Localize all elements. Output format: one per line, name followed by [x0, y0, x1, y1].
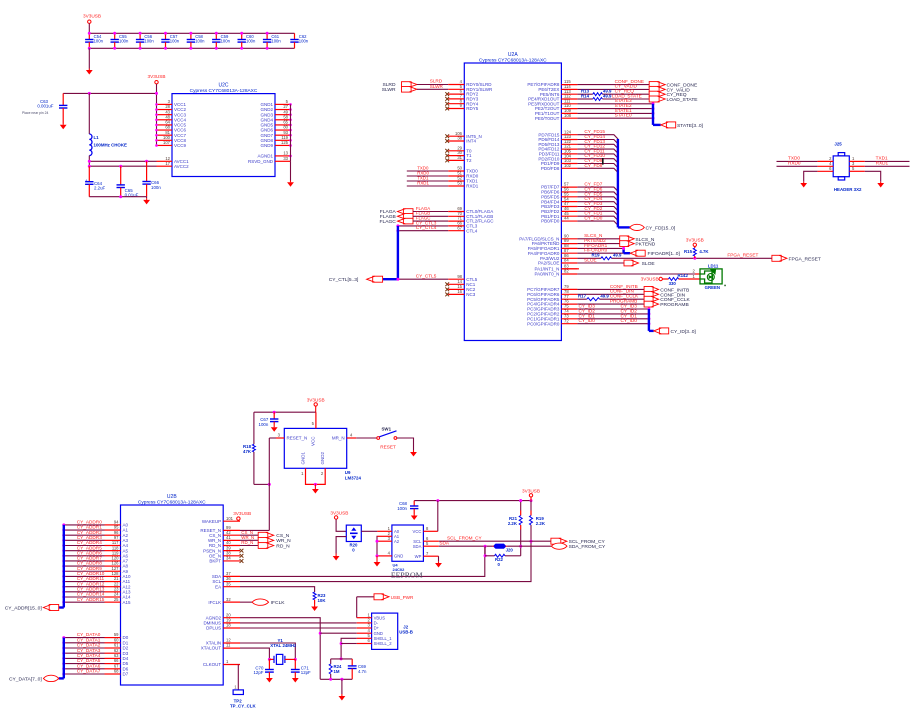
wire CY_ADDR12 [64, 586, 105, 588]
svg-text:2.2K: 2.2K [508, 521, 518, 526]
wire CY_FD15 [577, 135, 618, 139]
U2A pin RDY0/SLRD [448, 84, 464, 86]
wire FPGA_RESET [612, 257, 772, 259]
wire AVCC1 rail [89, 160, 156, 162]
wire RXD0 [777, 165, 818, 167]
wire 3V3USB to R20 [336, 519, 346, 531]
svg-text:31: 31 [457, 155, 462, 160]
wire J25 pin5 to ground [865, 171, 881, 182]
U2A pin RDY4 (no connect) [448, 103, 464, 105]
svg-text:NC3: NC3 [466, 292, 475, 297]
capacitor C68 [410, 501, 418, 514]
J2 pin D- [357, 622, 372, 624]
U2C pin AVCC2 [157, 165, 173, 167]
ground (U4 A1/A2/GND) [374, 556, 381, 567]
svg-text:U9: U9 [345, 470, 351, 475]
J2 pin D+ [357, 627, 372, 629]
wire CY_FD8 [577, 168, 618, 172]
U2A pin PC6/GPIFADR6 [561, 293, 577, 295]
junction [622, 247, 625, 250]
resistor R18 47K [253, 412, 255, 444]
wire CY_FD12 [577, 149, 618, 153]
wire SCL_FROM_CY [439, 540, 551, 542]
svg-text:VCC9: VCC9 [174, 143, 187, 148]
junction [88, 92, 91, 95]
wire INT0_N to LED [577, 273, 695, 275]
svg-text:PROGRAMB: PROGRAMB [660, 302, 689, 308]
svg-text:PA0/INT0_N: PA0/INT0_N [534, 272, 559, 277]
svg-text:SDA: SDA [413, 544, 422, 549]
svg-text:Cypress CY7C68013A-128AXC: Cypress CY7C68013A-128AXC [138, 499, 206, 505]
svg-text:100MHz CHOKE: 100MHz CHOKE [94, 142, 127, 147]
resistor R23 10K [313, 592, 316, 600]
J25 pin 5 [849, 170, 865, 172]
wire CONF_INITB [577, 288, 644, 290]
wire RXD1 [407, 185, 448, 187]
junction [139, 32, 142, 35]
U2B pin A8 [105, 565, 121, 567]
port IFCLK [252, 599, 269, 605]
ground (C68) [411, 514, 418, 520]
IC U2B box [121, 505, 224, 685]
U2C pin AVCC1 [157, 160, 173, 162]
svg-text:12pF: 12pF [253, 670, 263, 675]
U2A pin T2 (no connect) [448, 159, 464, 161]
junction [647, 308, 650, 311]
U2A pin PA5/FIFOADR1 [561, 247, 577, 249]
wire TXD1 [407, 180, 448, 182]
U2C pin VCC2 [157, 109, 173, 111]
capacitor C63 [59, 93, 67, 110]
svg-text:FPGA_RESET: FPGA_RESET [727, 253, 758, 258]
wire CY_DATA6 [64, 668, 105, 670]
svg-text:WR_N: WR_N [276, 538, 291, 544]
junction [329, 678, 332, 681]
junction [268, 658, 271, 661]
wire CONF_DONE [577, 84, 649, 86]
junction [62, 534, 65, 537]
svg-text:38: 38 [457, 136, 462, 141]
wire CY_ADDR4 [64, 545, 105, 547]
svg-text:PKTEND: PKTEND [635, 242, 655, 248]
ground (AVCC filter) [146, 197, 148, 199]
wire CY_ADDR6 [64, 555, 105, 557]
port SLCS_N [620, 236, 635, 242]
junction [62, 570, 65, 573]
wire CY_FD3 [577, 207, 618, 211]
U2B pin D0 [105, 637, 121, 639]
U2A pin PA6/PKTEND [561, 243, 577, 245]
bus FIFOADR [622, 248, 624, 253]
junction [652, 102, 655, 105]
wire CY_DATA5 [64, 663, 105, 665]
wire WR_N [240, 539, 258, 541]
svg-text:R142: R142 [678, 273, 689, 278]
U2C pin AGND1 [275, 155, 291, 157]
U2A pin PB6/FD6 [561, 191, 577, 193]
svg-text:PC0/GPIFADR0: PC0/GPIFADR0 [527, 321, 560, 326]
svg-text:CY_ADDR15: CY_ADDR15 [77, 597, 105, 602]
svg-text:100n: 100n [94, 38, 104, 43]
U2B pin A4 [105, 545, 121, 547]
U2A pin PA1 stub [561, 268, 579, 270]
svg-text:SLWR: SLWR [382, 87, 396, 93]
U2A pin RDY1/SLWR [448, 88, 464, 90]
J2 pin GND [357, 632, 372, 634]
wire CY_FD11 [577, 154, 618, 158]
U2C pin GND4 [275, 119, 291, 121]
svg-text:3V3USB: 3V3USB [522, 489, 540, 494]
svg-text:HEADER 3X2: HEADER 3X2 [834, 187, 862, 192]
wire CY_VALID [577, 88, 649, 90]
capacitor C60 [238, 33, 246, 48]
U2B pin A3 [105, 539, 121, 541]
IC U9 LM3724 box [284, 428, 346, 468]
wire PE5 to R13 [577, 93, 592, 95]
svg-text:L1: L1 [94, 135, 100, 140]
U2C pin VCC5 [157, 124, 173, 126]
junction [88, 32, 91, 35]
svg-text:XTAL 24MHz: XTAL 24MHz [270, 643, 297, 648]
svg-text:100n: 100n [195, 38, 205, 43]
svg-text:RESET_N: RESET_N [287, 436, 308, 441]
U2A pin RXD0 [448, 175, 464, 177]
wire 3V3USB feed [63, 92, 156, 94]
svg-text:A15: A15 [123, 600, 132, 605]
junction [266, 32, 269, 35]
capacitor C61 [263, 33, 271, 48]
junction [319, 632, 322, 635]
ground (cap bank) [88, 48, 90, 68]
svg-text:CY_CTL[5..3]: CY_CTL[5..3] [329, 277, 359, 283]
wire R18 to RESET_N [254, 483, 269, 485]
junction [519, 545, 522, 548]
wire CY_ADDR11 [64, 581, 105, 583]
svg-text:13: 13 [283, 151, 288, 156]
ground (C71) [292, 677, 299, 683]
junction [88, 160, 91, 163]
junction [62, 601, 65, 604]
power 3V3USB (R15) [693, 243, 696, 246]
wire PE4 to R14 [577, 98, 592, 100]
svg-text:CY_DATA[7..0]: CY_DATA[7..0] [9, 676, 42, 682]
U2A pin PE1/T1OUT [561, 112, 577, 114]
junction [652, 117, 655, 120]
svg-text:3V3USB: 3V3USB [686, 238, 704, 243]
svg-text:VCC: VCC [311, 436, 316, 446]
capacitor C54 [85, 33, 93, 48]
port CONF_CCLK [644, 296, 659, 302]
wire CONF_CCLK [600, 298, 645, 300]
U2B pin D7 [105, 673, 121, 675]
U2A pin PC7/GPIFADR7 [561, 288, 577, 290]
ground (J25 right) [877, 182, 884, 188]
svg-text:CY_ID0: CY_ID0 [621, 318, 638, 323]
U2A pin PE6/T2EX [561, 88, 577, 90]
svg-text:108: 108 [564, 113, 572, 118]
svg-text:GND2: GND2 [320, 452, 325, 465]
wire GND bus (U2C) [290, 104, 292, 161]
wire VCC bus [156, 93, 158, 145]
svg-text:CY_ADDR[15..0]: CY_ADDR[15..0] [5, 606, 43, 612]
svg-text:49.9: 49.9 [613, 253, 622, 258]
U2A pin T0 (no connect) [448, 150, 464, 152]
svg-text:R15: R15 [684, 249, 693, 254]
wire SLWR [417, 88, 448, 90]
svg-text:PA2/SLOE: PA2/SLOE [538, 261, 559, 266]
svg-text:TP_CY_CLK: TP_CY_CLK [230, 704, 256, 709]
wire AGND2 [240, 618, 320, 680]
U2B pin D4 [105, 657, 121, 659]
switch SW1 RESET [377, 437, 380, 440]
wire FLAGC [413, 220, 448, 222]
port CS_N [258, 532, 274, 538]
svg-text:101: 101 [226, 516, 234, 521]
svg-text:16: 16 [457, 289, 462, 294]
svg-text:GND: GND [394, 554, 403, 559]
power 3V3USB (U2C) [155, 81, 158, 84]
svg-text:A2: A2 [394, 539, 400, 544]
wire SCL long [240, 525, 531, 582]
wire TXD0 [407, 170, 448, 172]
U2A pin PC4/GPIFADR4 [561, 303, 577, 305]
U2B pin D3 [105, 652, 121, 654]
U2A pin NC1 (no connect) [448, 283, 464, 285]
svg-text:3V3USB: 3V3USB [233, 511, 251, 516]
IC U2C box [172, 94, 275, 177]
junction [155, 92, 158, 95]
junction [340, 642, 343, 645]
svg-text:68: 68 [114, 669, 119, 674]
svg-text:100n: 100n [170, 38, 180, 43]
wire MR_N to SW1 [356, 437, 377, 439]
port SCL_FROM_CY [551, 538, 567, 544]
U2C pin VCC8 [157, 139, 173, 141]
svg-text:3V3USB: 3V3USB [148, 74, 166, 79]
svg-text:USB-B: USB-B [399, 629, 413, 634]
wire RXD1 [865, 165, 910, 167]
wire A1/A2 tie [376, 536, 378, 556]
svg-text:J25: J25 [834, 141, 842, 146]
wire CY_DATA4 [64, 657, 105, 659]
U2B pin SCL [223, 581, 240, 583]
svg-text:U2C: U2C [218, 83, 228, 89]
U2B pin A15 [105, 601, 121, 603]
U2A pin PB1/FD1 [561, 215, 577, 217]
U4 pin VCC [423, 530, 437, 532]
wire CY_ID0 [577, 323, 649, 325]
U2A pin INT4 (no connect) [448, 140, 464, 142]
U2B pin A0 [105, 524, 121, 526]
wire XTALOUT [240, 648, 269, 659]
svg-text:GREEN: GREEN [705, 285, 720, 290]
wire D+ [240, 627, 357, 629]
junction [119, 195, 122, 198]
wire PC5 to R17 [577, 298, 586, 300]
junction [62, 539, 65, 542]
port RD_N [258, 543, 274, 549]
junction [693, 257, 696, 260]
U2A pin PD2/FD10 [561, 158, 577, 160]
wire CY_FD1 [577, 216, 618, 220]
U9 pin MR_N [347, 437, 357, 439]
jumper R20 [346, 525, 361, 541]
svg-text:107: 107 [163, 140, 171, 145]
wire FLAGA [413, 211, 448, 213]
svg-text:CY_FD0: CY_FD0 [584, 216, 602, 221]
svg-text:SHELL_2: SHELL_2 [374, 641, 393, 646]
U4 pin SCL [423, 540, 438, 542]
svg-text:T2: T2 [466, 158, 472, 163]
wire STATE1 [577, 112, 653, 114]
svg-text:12pF: 12pF [301, 670, 311, 675]
junction [62, 662, 65, 665]
jumper J20 [494, 544, 506, 548]
resistor R15 4.7K [694, 247, 696, 249]
ground (R20) [333, 554, 340, 561]
U2B pin DMINUS [223, 622, 240, 624]
U2A pin PA2/SLOE [561, 262, 577, 264]
wire CY_DATA3 [64, 652, 105, 654]
svg-text:3V3USB: 3V3USB [307, 398, 325, 403]
wire D- [240, 622, 357, 624]
capacitor C57 [161, 33, 169, 48]
ground (U2C) [290, 161, 292, 180]
U2A pin PE7/GPIFADR8 [561, 84, 577, 86]
power 3V3USB (U9) [314, 403, 317, 406]
wire WP to ground [438, 556, 440, 562]
U2C pin GND2 [275, 109, 291, 111]
U2A pin INT5_N (no connect) [448, 135, 464, 137]
U2A pin CTL5 [448, 278, 464, 280]
junction [62, 554, 65, 557]
J2 pin SHELL_1 [357, 637, 372, 639]
capacitor C62 [290, 33, 298, 48]
wire CY_ADDR0 [64, 524, 105, 526]
svg-text:RD_N: RD_N [241, 540, 253, 545]
U4 pin A0 [377, 530, 392, 532]
bus CY_ADDR vertical [63, 525, 65, 608]
svg-text:33: 33 [283, 156, 288, 161]
power 3V3USB (cap bank) [88, 20, 91, 23]
junction [436, 499, 439, 502]
svg-text:XTALOUT: XTALOUT [201, 646, 222, 651]
U2A pin PB3/FD3 [561, 206, 577, 208]
port CY_FD[15..0] [630, 224, 645, 230]
U2B pin CS_N [223, 534, 240, 536]
svg-text:100n: 100n [246, 38, 256, 43]
wire CY_DATA0 [64, 637, 105, 639]
U2C pin RSVD_GND [275, 160, 291, 162]
svg-text:49.9: 49.9 [603, 93, 612, 98]
svg-text:AVCC2: AVCC2 [174, 164, 189, 169]
svg-text:EA: EA [215, 584, 221, 589]
junction [113, 32, 116, 35]
wire CY_ADDR8 [64, 565, 105, 567]
junction [652, 107, 655, 110]
svg-text:10K: 10K [318, 598, 327, 603]
wire SHELL_2 [341, 643, 357, 645]
svg-text:USB_PWR: USB_PWR [391, 595, 414, 600]
svg-text:GND1: GND1 [300, 452, 305, 465]
svg-text:RXD1: RXD1 [876, 161, 889, 166]
J25 pin 3 [849, 165, 865, 167]
svg-text:PD0/FD8: PD0/FD8 [541, 166, 560, 171]
U9 pin RESET_N [276, 437, 284, 439]
wire R24/C69 top rail [331, 658, 353, 660]
capacitor C59 [212, 33, 220, 48]
svg-text:CY_FD[15..0]: CY_FD[15..0] [646, 225, 676, 231]
J25 pin 6 [817, 170, 833, 172]
svg-text:CY_DATA7: CY_DATA7 [77, 669, 101, 674]
svg-text:VCC: VCC [413, 529, 422, 534]
svg-text:CLKOUT: CLKOUT [203, 662, 222, 667]
wire CY_FD9 [577, 164, 618, 168]
svg-text:100n: 100n [221, 38, 231, 43]
svg-text:Cypress CY7C68013A-128AXC: Cypress CY7C68013A-128AXC [479, 58, 547, 64]
wire CLKOUT to TP2 [237, 665, 239, 690]
svg-text:102: 102 [564, 163, 572, 168]
junction [240, 32, 243, 35]
U2B pin A5 [105, 550, 121, 552]
svg-text:CY_CTL4: CY_CTL4 [416, 225, 437, 230]
wire CY_ADDR2 [64, 534, 105, 536]
U2B pin AGND2 [223, 617, 240, 619]
svg-text:RD_N: RD_N [276, 543, 290, 549]
svg-text:LOAD_STATE: LOAD_STATE [667, 97, 699, 103]
svg-text:18: 18 [226, 623, 231, 628]
U2A pin RDY3 (no connect) [448, 98, 464, 100]
wire 3V3 rail (U9) [254, 411, 316, 413]
U2A pin PD5/FD13 [561, 143, 577, 145]
svg-text:D7: D7 [123, 672, 129, 677]
junction [62, 529, 65, 532]
wire LOAD_STATE [602, 98, 649, 100]
U4 pin SDA [423, 545, 438, 547]
svg-text:PB0/FD0: PB0/FD0 [541, 219, 560, 224]
wire CY_ADDR3 [64, 539, 105, 541]
wire SLCS_N [577, 238, 619, 240]
svg-text:BKPT: BKPT [209, 559, 221, 564]
wire SLRD [417, 84, 448, 86]
junction [164, 32, 167, 35]
port SLOE [624, 260, 639, 266]
U2B pin D5 [105, 663, 121, 665]
junction [273, 411, 276, 414]
bus CY_FD vertical [617, 139, 619, 228]
U2C pin GND6 [275, 129, 291, 131]
junction [62, 575, 65, 578]
U2B pin EA [223, 586, 240, 588]
wire RXD0 [407, 175, 448, 177]
wire CY_REQ [602, 93, 649, 95]
svg-text:INT4: INT4 [466, 139, 476, 144]
wire RD_N [240, 545, 258, 547]
svg-text:17: 17 [165, 161, 170, 166]
junction [62, 652, 65, 655]
U4 pin A2 [377, 540, 392, 542]
U2B pin A2 [105, 534, 121, 536]
bus CY_CTL vertical [397, 226, 399, 279]
wire CY_ADDR7 [64, 560, 105, 562]
U2B pin RD_N [223, 545, 240, 547]
port CY_CTL[5..3] [367, 276, 383, 282]
U2C pin GND3 [275, 114, 291, 116]
wire CY_DATA2 [64, 647, 105, 649]
wire CY_FD5 [577, 197, 618, 201]
U2A pin PE5/INT6 [561, 93, 577, 95]
svg-text:WAKEUP: WAKEUP [202, 519, 221, 524]
